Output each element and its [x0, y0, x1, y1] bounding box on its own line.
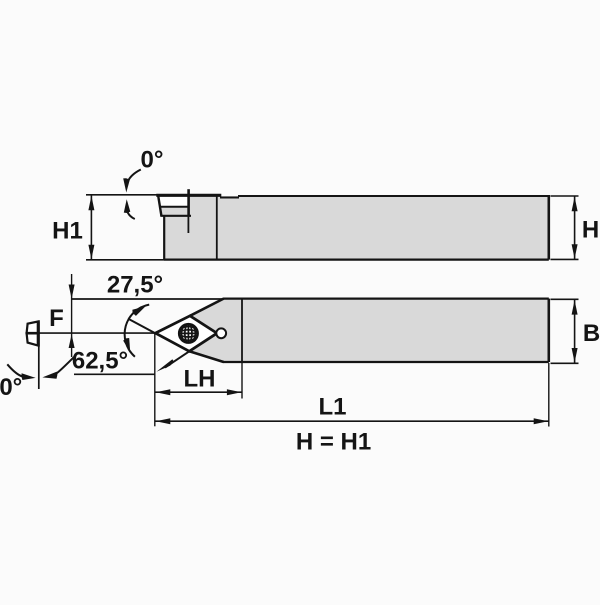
side view pocket back wall thick line — [187, 189, 190, 216]
B bottom extension line — [551, 362, 579, 364]
side view bottom edge — [164, 259, 549, 261]
L1 left arrow — [156, 418, 171, 424]
H1 dimension line — [90, 196, 92, 260]
side view insert (white) — [158, 195, 188, 207]
insert section flag symbol bottom — [27, 333, 39, 345]
0deg lower leader tail — [127, 212, 135, 220]
F dimension line — [71, 274, 73, 357]
side view left end edge — [163, 215, 165, 260]
B arrow down — [572, 348, 578, 363]
side view head-shank boundary line — [216, 196, 218, 260]
62,5deg underline leader — [74, 373, 155, 375]
clamp screw globe — [179, 324, 198, 343]
top view shank top edge — [223, 298, 549, 300]
joint line extension for LH — [241, 362, 243, 399]
angle arc annotation — [125, 305, 150, 357]
LH left arrow — [156, 389, 171, 395]
H1 arrow down — [88, 245, 94, 260]
H1 top extension line — [86, 194, 157, 196]
side view screw axis thin line — [187, 217, 189, 233]
H arrow down — [572, 244, 578, 259]
svg-text:L1: L1 — [318, 394, 346, 421]
H top extension line — [551, 195, 579, 197]
H1 bottom extension line — [86, 259, 164, 261]
insert corner relief hole — [216, 328, 226, 338]
svg-text:0°: 0° — [141, 147, 164, 174]
0deg lower arrowhead — [124, 199, 131, 213]
svg-text:H: H — [582, 217, 599, 244]
L1 right extension line — [548, 363, 550, 427]
side view insert shim (gray) — [161, 207, 188, 216]
L1 right arrow — [534, 418, 549, 424]
shank top extension line (left, y299) — [71, 298, 223, 300]
F arrow up (below) — [69, 334, 75, 348]
top view shank body — [189, 299, 549, 362]
angle arc top arrowhead — [132, 306, 145, 316]
L1 dimension line — [155, 420, 548, 422]
top view shank bottom edge — [223, 361, 549, 363]
H bottom extension line — [551, 258, 579, 260]
svg-text:62,5°: 62,5° — [72, 348, 128, 375]
svg-text:0°: 0° — [0, 374, 22, 401]
cutting edge extension up-left of tip — [128, 319, 155, 334]
top view head bottom slant edge — [189, 351, 223, 362]
side view right end edge — [547, 195, 550, 260]
vertical drop line from tip — [154, 333, 156, 426]
side view insert pocket bottom line — [160, 215, 191, 217]
side view shank body — [164, 196, 549, 260]
cutting edge lower extension line — [165, 351, 189, 367]
svg-text:B: B — [583, 320, 600, 347]
svg-text:27,5°: 27,5° — [107, 272, 163, 299]
0deg right leader arc — [56, 357, 74, 374]
angle arc bottom arrowhead — [123, 338, 130, 352]
F arrow down (above) — [69, 285, 75, 299]
top view head top slant edge — [190, 299, 224, 316]
svg-text:LH: LH — [184, 365, 216, 392]
B top extension line — [551, 298, 579, 300]
0deg left arrowhead — [21, 373, 35, 380]
cutting edge extension arrowhead — [156, 359, 174, 372]
flag mast vertical line — [38, 321, 40, 389]
0deg left leader arc — [7, 364, 22, 376]
svg-text:H = H1: H = H1 — [296, 429, 371, 456]
flag right edge bar — [37, 321, 40, 346]
top view shank right edge — [547, 299, 550, 362]
0deg upper leader arc — [127, 170, 141, 185]
diamond insert (top view) — [155, 316, 217, 352]
side view top edge step notch — [220, 197, 239, 199]
H arrow up — [572, 197, 578, 212]
side view insert mid line — [161, 206, 189, 208]
0deg right arrowhead — [42, 372, 57, 379]
side view insert left slant edge — [158, 195, 161, 216]
LH dimension line — [155, 391, 242, 393]
B arrow up — [572, 300, 578, 315]
B dimension line — [574, 300, 576, 363]
tip height line (y333) — [26, 332, 156, 334]
svg-text:F: F — [49, 305, 64, 332]
side view top edge main — [238, 195, 549, 197]
H dimension line — [574, 197, 576, 260]
side view top edge thick (insert top / cutting region) — [156, 194, 221, 197]
H1 arrow up — [88, 196, 94, 211]
top view head-shank joint line — [241, 299, 243, 362]
insert section flag symbol top — [27, 321, 39, 333]
LH right arrow — [227, 389, 242, 395]
0deg upper arrowhead — [123, 178, 130, 192]
svg-text:H1: H1 — [52, 218, 83, 245]
